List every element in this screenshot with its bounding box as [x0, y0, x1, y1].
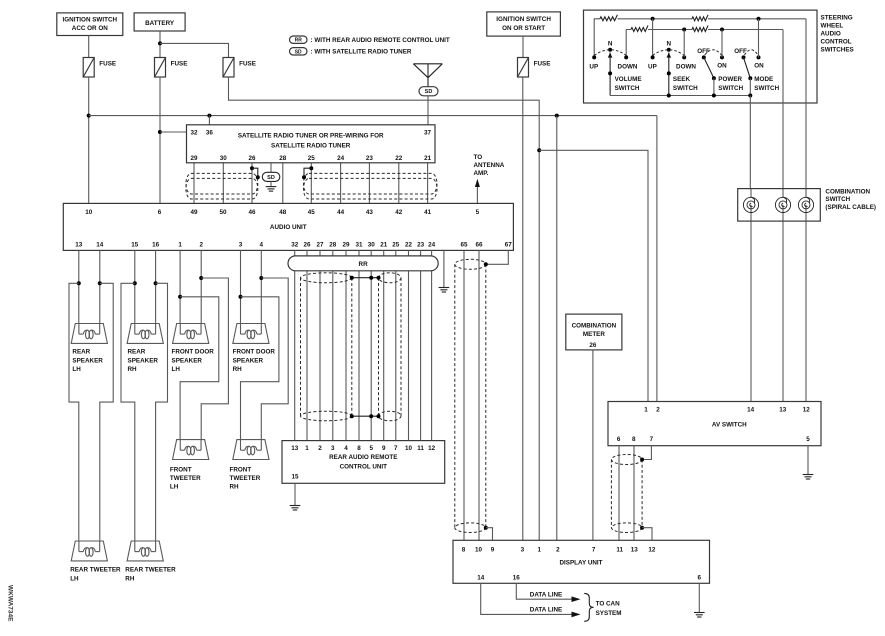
svg-text:DOWN: DOWN	[618, 63, 638, 70]
svg-text:41: 41	[424, 209, 432, 216]
resistor R4	[692, 26, 708, 32]
svg-text:21: 21	[380, 241, 388, 248]
svg-text:STEERING: STEERING	[821, 15, 853, 22]
wire audio 3 to front door speaker RH +	[240, 250, 242, 323]
svg-text:REAR AUDIO REMOTE: REAR AUDIO REMOTE	[329, 454, 397, 461]
node AV shield bottom	[640, 526, 644, 530]
wire AV 8 to display 13	[633, 446, 635, 541]
svg-text:7: 7	[650, 436, 654, 443]
svg-text:36: 36	[206, 130, 214, 137]
svg-text:28: 28	[329, 241, 337, 248]
svg-text:26: 26	[248, 155, 256, 162]
wire shield drain right	[304, 168, 311, 177]
svg-text:5: 5	[476, 209, 480, 216]
mode switch pivot	[748, 76, 752, 80]
svg-text:TO: TO	[474, 154, 483, 161]
svg-text:SPEAKER: SPEAKER	[128, 357, 159, 364]
display unit box	[453, 540, 710, 583]
satellite tuner shield left	[186, 173, 258, 199]
ground display unit	[694, 613, 705, 618]
node wire A mode-on	[757, 17, 761, 21]
satellite radio tuner box	[187, 125, 436, 163]
svg-text:2: 2	[656, 407, 660, 414]
svg-text:31: 31	[355, 241, 363, 248]
svg-text:POWER: POWER	[718, 76, 742, 83]
svg-text:CONTROL: CONTROL	[821, 39, 852, 46]
svg-text:32: 32	[190, 130, 198, 137]
wire fuse F2 to audio pin 6	[159, 77, 161, 203]
volume switch wiper node	[608, 71, 612, 75]
svg-text:VOLUME: VOLUME	[615, 76, 642, 83]
volume switch contacts	[592, 55, 596, 59]
svg-text:10: 10	[85, 209, 93, 216]
svg-text:ON: ON	[717, 62, 727, 69]
front door speaker RH	[233, 324, 269, 344]
switch common rail	[610, 95, 750, 97]
wire A down to combination switch	[805, 19, 807, 189]
svg-text:(SPIRAL CABLE): (SPIRAL CABLE)	[825, 204, 876, 211]
svg-text:16: 16	[513, 574, 521, 581]
svg-text:FRONT DOOR: FRONT DOOR	[172, 349, 215, 356]
svg-text:24: 24	[337, 155, 345, 162]
svg-text:12: 12	[648, 546, 656, 553]
svg-text:REAR: REAR	[72, 349, 90, 356]
svg-text:AMP.: AMP.	[474, 170, 489, 177]
node 3 branch	[239, 295, 243, 299]
antenna	[413, 64, 442, 87]
svg-text:TO CAN: TO CAN	[596, 601, 620, 608]
svg-text:DOWN: DOWN	[676, 63, 696, 70]
spiral cable 1	[743, 197, 758, 212]
svg-text:IGNITION SWITCH: IGNITION SWITCH	[63, 17, 118, 24]
svg-text:RH: RH	[125, 575, 135, 582]
wire audio 15 to rear speaker RH +	[134, 250, 136, 323]
svg-text:ANTENNA: ANTENNA	[474, 162, 505, 169]
ground remote unit	[290, 506, 301, 511]
svg-text:48: 48	[279, 209, 287, 216]
svg-text:FUSE: FUSE	[99, 61, 116, 68]
node shield drain pin25	[309, 166, 313, 170]
wire audio 14 to rear speaker LH -	[99, 250, 101, 323]
svg-text:66: 66	[475, 241, 483, 248]
steering wheel switches box	[584, 10, 818, 103]
rear tweeter LH	[71, 541, 107, 561]
ignition switch ACC box	[57, 13, 123, 36]
svg-text:CONTROL UNIT: CONTROL UNIT	[340, 464, 388, 471]
AV switch box	[608, 402, 821, 446]
mode switch dashed arc	[745, 50, 759, 55]
rear speaker LH	[71, 324, 107, 344]
svg-text:: WITH SATELLITE RADIO TUNER: : WITH SATELLITE RADIO TUNER	[311, 49, 412, 56]
svg-text:42: 42	[395, 209, 403, 216]
svg-text:SD: SD	[267, 175, 275, 181]
svg-text:46: 46	[248, 209, 256, 216]
svg-text:METER: METER	[583, 331, 605, 338]
svg-text:REAR: REAR	[128, 349, 146, 356]
svg-text:25: 25	[308, 155, 316, 162]
svg-text:REAR TWEETER: REAR TWEETER	[70, 567, 121, 574]
wire display 16 data line	[516, 583, 571, 599]
mode switch lever	[744, 57, 751, 78]
svg-text:13: 13	[75, 241, 83, 248]
wire audio 4 to front door speaker RH -	[260, 250, 262, 323]
SD ground stub	[270, 163, 272, 173]
fuse F4	[518, 58, 529, 78]
svg-text:13: 13	[779, 407, 787, 414]
seek switch contacts	[651, 55, 655, 59]
svg-text:7: 7	[592, 546, 596, 553]
svg-text:15: 15	[131, 241, 139, 248]
satellite tuner shield right	[304, 173, 438, 199]
front tweeter LH	[173, 440, 209, 460]
wires audio to rear audio remote control unit	[294, 250, 296, 440]
wire fuse F4 to display pin 3	[522, 77, 524, 540]
svg-text:LH: LH	[70, 575, 79, 582]
svg-text:1: 1	[538, 546, 542, 553]
wire remote 15 to ground	[294, 483, 296, 505]
svg-text:6: 6	[617, 436, 621, 443]
svg-text:65: 65	[460, 241, 468, 248]
svg-text:16: 16	[152, 241, 160, 248]
node 13 branch	[77, 281, 81, 285]
wire branch to AV pin 1	[539, 150, 648, 401]
power switch lever	[704, 57, 714, 78]
svg-text:26: 26	[589, 342, 597, 349]
svg-text:LH: LH	[170, 484, 179, 491]
wire to satellite pin 36	[208, 116, 210, 125]
svg-text:WHEEL: WHEEL	[821, 23, 844, 30]
svg-text:8: 8	[357, 445, 361, 452]
resistor R3	[631, 26, 648, 32]
svg-text:22: 22	[395, 155, 403, 162]
wire branch 4 to front tweeter RH	[261, 278, 288, 440]
svg-text:24: 24	[428, 241, 436, 248]
svg-text:AUDIO UNIT: AUDIO UNIT	[270, 224, 307, 231]
svg-text:50: 50	[219, 209, 227, 216]
svg-text:AUDIO: AUDIO	[821, 31, 841, 38]
volume switch wiper arrow	[609, 53, 611, 96]
rear tweeter RH	[127, 541, 163, 561]
svg-text:LH: LH	[72, 366, 81, 373]
svg-text:FUSE: FUSE	[171, 61, 188, 68]
svg-text:3: 3	[239, 241, 243, 248]
wire to satellite pin 32	[160, 131, 187, 133]
svg-text:ON OR START: ON OR START	[502, 25, 545, 32]
wire audio 1 to front door speaker LH +	[179, 250, 181, 323]
svg-text:FUSE: FUSE	[239, 61, 256, 68]
svg-text:OFF: OFF	[697, 48, 710, 55]
svg-text:SPEAKER: SPEAKER	[72, 357, 103, 364]
spiral cable 3	[798, 197, 813, 212]
power switch on line	[721, 30, 723, 58]
wire fuse F1 to audio pin 10	[88, 77, 90, 203]
power switch contacts	[702, 55, 706, 59]
svg-text:49: 49	[190, 209, 198, 216]
svg-text:32: 32	[291, 241, 299, 248]
svg-text:29: 29	[342, 241, 350, 248]
wire ignition2 to fuse F4	[522, 36, 524, 57]
fuse F3	[223, 58, 234, 78]
svg-text:14: 14	[96, 241, 104, 248]
svg-text:SEEK: SEEK	[673, 76, 691, 83]
ground audio unit	[439, 288, 450, 293]
svg-text:9: 9	[382, 445, 386, 452]
svg-text:26: 26	[303, 241, 311, 248]
wire audio ground	[443, 250, 445, 287]
svg-text:6: 6	[158, 209, 162, 216]
svg-text:RH: RH	[128, 366, 138, 373]
ground satellite SD	[266, 187, 277, 192]
node battery branch	[158, 41, 162, 45]
node ACC bus left	[87, 114, 91, 118]
legend SD oval	[290, 48, 308, 55]
node AV7 shield	[640, 458, 644, 462]
rear speaker RH	[127, 324, 163, 344]
svg-text:37: 37	[424, 130, 432, 137]
rear audio remote control unit box	[282, 441, 445, 484]
svg-text:67: 67	[505, 241, 513, 248]
node shield bottom drain	[484, 526, 488, 530]
fuse F2	[155, 58, 166, 78]
svg-text:12: 12	[803, 407, 811, 414]
svg-text:10: 10	[475, 546, 483, 553]
svg-text:DATA LINE: DATA LINE	[530, 607, 562, 614]
svg-text:8: 8	[462, 546, 466, 553]
wire branch 13 to rear tweeter LH	[69, 283, 79, 541]
RR stadium	[288, 256, 438, 271]
wire display 6 to ground	[698, 583, 700, 612]
node 16 branch	[154, 281, 158, 285]
svg-text:LH: LH	[172, 366, 181, 373]
svg-text:11: 11	[417, 445, 424, 452]
wire meter 26 to display 7	[592, 350, 594, 540]
wire branch 15 to rear tweeter RH	[121, 283, 135, 541]
svg-text:TWEETER: TWEETER	[230, 475, 261, 482]
svg-text:2: 2	[556, 546, 560, 553]
ignition switch ON/START box	[487, 12, 561, 36]
RR shield left cylinder	[301, 273, 352, 421]
wire branch 3 to front tweeter RH	[241, 297, 279, 440]
svg-text:23: 23	[366, 155, 374, 162]
svg-text:SYSTEM: SYSTEM	[596, 610, 622, 617]
svg-text:27: 27	[316, 241, 324, 248]
svg-text:COMBINATION: COMBINATION	[825, 189, 870, 196]
battery box	[134, 13, 185, 31]
wire audio 13 to rear speaker LH +	[78, 250, 80, 323]
wire ignition to fuse F1	[88, 36, 90, 58]
resistor R2	[692, 15, 708, 21]
svg-text:SATELLITE RADIO TUNER OR PRE-W: SATELLITE RADIO TUNER OR PRE-WIRING FOR	[238, 133, 384, 140]
svg-text:9: 9	[491, 546, 495, 553]
spiral cable 2	[775, 197, 790, 212]
svg-text:15: 15	[291, 474, 299, 481]
seek switch N node	[667, 48, 671, 52]
RR shield right cylinder	[379, 273, 402, 421]
wire AV 6 to display 11	[618, 446, 620, 541]
svg-text:RR: RR	[359, 261, 369, 268]
shield cylinder AV 6/8	[611, 455, 642, 533]
svg-text:FRONT: FRONT	[170, 466, 192, 473]
wire audio 66 to display 10	[478, 250, 480, 540]
volume switch N node	[608, 48, 612, 52]
node battery to satellite pin 32	[158, 130, 162, 134]
wires steering to combination switch done above; spiral wires	[750, 189, 752, 198]
wire branch 2 to front tweeter LH	[201, 278, 228, 440]
svg-text:SWITCH: SWITCH	[718, 85, 743, 92]
node 1 branch	[178, 295, 182, 299]
svg-text:30: 30	[220, 155, 228, 162]
svg-text:3: 3	[331, 445, 335, 452]
svg-text:UP: UP	[648, 63, 657, 70]
power switch dashed arc	[705, 50, 722, 55]
wire AV 5 to ground	[807, 446, 809, 475]
svg-text:SWITCH: SWITCH	[825, 196, 850, 203]
svg-text:3: 3	[521, 546, 525, 553]
svg-text:SWITCH: SWITCH	[754, 85, 779, 92]
node 4 branch	[259, 276, 263, 280]
svg-text:BATTERY: BATTERY	[145, 20, 175, 27]
svg-text:ON: ON	[754, 62, 764, 69]
svg-text:8: 8	[632, 436, 636, 443]
wire audio 16 to rear speaker RH -	[155, 250, 157, 323]
mode switch on line	[758, 19, 760, 58]
resistor R1	[600, 15, 617, 21]
svg-text:13: 13	[291, 445, 299, 452]
wire shield to display pin 9	[486, 528, 493, 541]
legend RR oval	[290, 36, 308, 43]
svg-text:28: 28	[279, 155, 287, 162]
svg-text:21: 21	[424, 155, 432, 162]
svg-text:13: 13	[631, 546, 639, 553]
wire branch 1 to front tweeter LH	[180, 297, 219, 440]
combination meter box	[566, 314, 622, 350]
node 14 branch	[98, 281, 102, 285]
wire B down to combination switch	[782, 30, 784, 189]
svg-text:11: 11	[616, 546, 623, 553]
wire audio 65 to display 8	[463, 250, 465, 540]
node wire B power-on	[720, 28, 724, 32]
svg-text:14: 14	[747, 407, 755, 414]
wire ACC bus corner to AV pin 2	[656, 116, 658, 402]
ACC bus wire	[89, 115, 657, 117]
svg-text:45: 45	[308, 209, 316, 216]
svg-text:FRONT: FRONT	[230, 466, 252, 473]
svg-text:FUSE: FUSE	[534, 61, 551, 68]
svg-text:MODE: MODE	[754, 76, 773, 83]
wire seek switch up contact	[652, 19, 654, 58]
svg-text:SD: SD	[425, 89, 433, 95]
node fuse F3 branch to AV pin 1	[537, 148, 541, 152]
svg-text:4: 4	[344, 445, 348, 452]
node 2 branch	[199, 276, 203, 280]
front tweeter RH	[233, 440, 269, 460]
wires combination switch to AV switch	[750, 221, 752, 401]
svg-text:COMBINATION: COMBINATION	[572, 323, 617, 330]
svg-text:SWITCH: SWITCH	[673, 85, 698, 92]
svg-text:10: 10	[405, 445, 413, 452]
wire antenna to satellite pin 37	[427, 96, 429, 125]
mode switch contacts	[742, 55, 746, 59]
svg-text:4: 4	[260, 241, 264, 248]
wire AV 7 to shield	[643, 446, 652, 460]
node ACC bus to display pin 2	[555, 114, 559, 118]
RR shield top drain	[352, 277, 379, 279]
svg-text:2: 2	[199, 241, 203, 248]
wire fuse F3 run	[229, 77, 540, 540]
svg-text:30: 30	[368, 241, 376, 248]
svg-text:N: N	[608, 41, 613, 48]
node ACC bus to satellite pin 36	[207, 114, 211, 118]
node wire B seek-down	[682, 28, 686, 32]
wire ACC to display pin 2	[556, 116, 558, 541]
svg-text:DATA LINE: DATA LINE	[530, 591, 562, 598]
wire audio pin5 antenna arrow	[476, 186, 478, 203]
svg-text:5: 5	[806, 436, 810, 443]
svg-text:SATELLITE RADIO TUNER: SATELLITE RADIO TUNER	[271, 142, 351, 149]
svg-text:ACC OR ON: ACC OR ON	[72, 25, 108, 32]
svg-text:SD: SD	[295, 49, 302, 55]
SD oval tag	[262, 172, 280, 181]
svg-text:WKWA734E: WKWA734E	[7, 585, 14, 622]
svg-text:IGNITION SWITCH: IGNITION SWITCH	[496, 16, 551, 23]
svg-text:23: 23	[417, 241, 425, 248]
node wire A seek-up	[651, 17, 655, 21]
volume switch dashed arc	[594, 50, 626, 56]
svg-text:43: 43	[366, 209, 374, 216]
seek switch down line	[683, 30, 685, 58]
node 67 shield	[484, 262, 488, 266]
svg-text:UP: UP	[589, 63, 598, 70]
wire branch 14 to rear tweeter LH	[100, 283, 113, 541]
wires satellite pins to audio unit	[193, 163, 195, 204]
svg-text:SPEAKER: SPEAKER	[172, 357, 203, 364]
svg-text:SPEAKER: SPEAKER	[233, 357, 264, 364]
wire display 14 data line	[481, 583, 572, 614]
svg-text:FRONT DOOR: FRONT DOOR	[233, 349, 276, 356]
fuse F1	[83, 58, 94, 78]
combination switch box	[738, 189, 821, 222]
svg-text:44: 44	[337, 209, 345, 216]
node shield drain pin26	[250, 166, 254, 170]
svg-text:1: 1	[644, 407, 648, 414]
power switch pivot	[712, 76, 716, 80]
svg-text:1: 1	[178, 241, 182, 248]
svg-text:TWEETER: TWEETER	[170, 475, 201, 482]
wire audio 67 to shield	[486, 250, 509, 264]
svg-text:7: 7	[394, 445, 398, 452]
svg-text:DISPLAY UNIT: DISPLAY UNIT	[559, 560, 602, 567]
svg-text:N: N	[667, 41, 672, 48]
node 15 branch	[133, 281, 137, 285]
svg-text:REAR TWEETER: REAR TWEETER	[125, 567, 176, 574]
svg-text:5: 5	[369, 445, 373, 452]
svg-text:SWITCH: SWITCH	[615, 85, 640, 92]
ground AV switch	[803, 475, 814, 480]
svg-text:: WITH REAR AUDIO REMOTE CONTR: : WITH REAR AUDIO REMOTE CONTROL UNIT	[311, 37, 450, 44]
shield cylinder 65/66	[455, 259, 486, 532]
TO CAN SYSTEM brace	[584, 593, 593, 621]
wire audio 2 to front door speaker LH -	[200, 250, 202, 323]
RR shield bottom drain	[352, 415, 379, 417]
seek switch wiper arrow	[668, 53, 670, 96]
svg-text:29: 29	[190, 155, 198, 162]
seek switch wiper node	[667, 71, 671, 75]
svg-text:RR: RR	[295, 38, 303, 44]
svg-text:1: 1	[305, 445, 309, 452]
svg-text:SWITCHES: SWITCHES	[821, 47, 854, 54]
wire battery down	[159, 31, 161, 58]
wire B lower resistor rail	[626, 30, 631, 58]
